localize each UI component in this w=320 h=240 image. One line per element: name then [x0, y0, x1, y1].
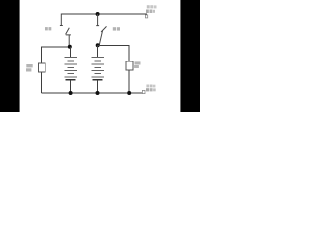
- wire: from S2 junction right then down right side: [98, 45, 130, 61]
- terminal lug at right end of bottom bus: [142, 90, 145, 93]
- right bar soft edge: [180, 0, 181, 112]
- wire: bottom bus from left corner to right terminal end: [41, 92, 142, 94]
- node: junction dot bottom bus / battery B2: [96, 91, 100, 95]
- node: junction dot bottom bus / battery B1: [69, 91, 73, 95]
- label 开关 for switch S2 (illegible tiny gray text): [113, 27, 120, 30]
- left bar soft edge: [19, 0, 20, 112]
- label 开关 for switch S1 (illegible tiny gray text): [45, 27, 51, 30]
- switch S2 bottom terminal stub: [99, 31, 102, 45]
- switch S2 blade (open): [101, 26, 106, 32]
- wire: top bus from node above switch S1 to right terminal end: [61, 13, 147, 15]
- label for E1 (illegible tiny gray text, two rows): [26, 64, 33, 72]
- switch S1 top terminal stub: [60, 14, 63, 26]
- node: junction dot bottom bus / right side: [127, 91, 131, 95]
- label: upper terminal annotation at right end of top bus (illegible tiny gray text): [146, 5, 157, 13]
- label: lower terminal annotation at right end of bottom bus (illegible tiny gray text): [146, 85, 156, 92]
- node: junction dot below switch S1 at (69.8,46.8): [68, 45, 72, 49]
- left black letterbox bar: [0, 0, 19, 112]
- wire: battery B2 top lead: [97, 45, 99, 57]
- lamp/bell box E2 on right side: [126, 61, 133, 70]
- wire: left side vertical with corner at (41.3,47): [41, 47, 70, 93]
- switch S1 bottom terminal stub: [66, 35, 71, 47]
- node: junction dot on top bus feeding switch S2: [96, 12, 100, 16]
- label for E2 (illegible tiny gray text, two rows): [134, 61, 140, 68]
- wire: battery B1 bottom lead to bottom bus: [70, 80, 72, 93]
- switch S1 blade (open): [66, 28, 70, 35]
- right black letterbox bar: [181, 0, 200, 112]
- lamp/bell box E1 on left side: [38, 63, 45, 72]
- terminal lug at right end of top bus: [145, 15, 147, 18]
- battery B2 (multi-cell stack): [91, 58, 104, 80]
- battery B1 (multi-cell stack): [64, 58, 77, 80]
- node: junction dot below switch S2 at (97.7,45.3): [96, 43, 100, 47]
- wire: battery B1 top lead: [70, 47, 72, 58]
- wire: right side below box E2 to bottom bus: [128, 70, 130, 93]
- wire: battery B2 bottom lead to bottom bus: [97, 80, 99, 93]
- switch S2 top terminal stub: [96, 14, 99, 26]
